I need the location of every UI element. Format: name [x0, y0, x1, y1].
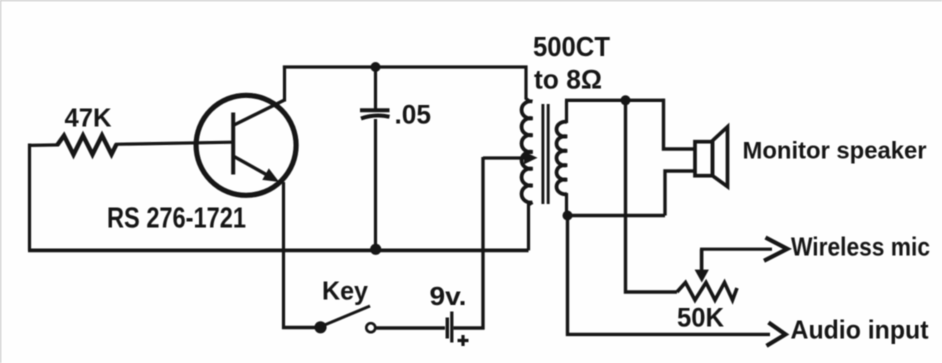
- secondary top lead: [565, 100, 568, 123]
- svg-text:9v.: 9v.: [430, 281, 467, 311]
- wire: secondary bottom horizontal: [567, 214, 666, 217]
- switch S1 Key: [282, 276, 375, 334]
- primary top lead: [526, 66, 530, 102]
- svg-text:Wireless mic: Wireless mic: [791, 232, 930, 262]
- wire: left vertical: [28, 144, 31, 251]
- battery B1 9v: [430, 281, 469, 346]
- secondary winding: [557, 122, 567, 194]
- svg-text:Key: Key: [322, 276, 369, 306]
- node: junction of capacitor with bottom rail: [370, 244, 381, 255]
- node: junction dot bottom of secondary: [563, 211, 573, 221]
- primary winding: [522, 101, 533, 202]
- capacitor C .05: [360, 67, 431, 250]
- wire: wiper to wireless mic arrow: [700, 232, 930, 262]
- wire: speaker top branch: [664, 99, 697, 149]
- secondary bottom lead: [565, 193, 568, 216]
- wire: speaker bottom branch: [665, 171, 694, 216]
- wire: base wire from left corner to transistor base: [30, 143, 60, 147]
- svg-text:RS 276-1721: RS 276-1721: [107, 203, 246, 235]
- svg-text:500CT: 500CT: [533, 31, 610, 62]
- wire: bottom rail: [28, 248, 529, 252]
- wire: center tap horizontal with arrow into coil: [483, 152, 538, 165]
- resistor R 47K: [58, 103, 117, 155]
- wire: secondary top to speaker loop: [565, 99, 665, 102]
- node: junction of capacitor with top rail: [371, 62, 381, 72]
- frame (decorative): [0, 0, 942, 1]
- wire: collector vertical: [283, 66, 286, 102]
- transistor Q1 RS 276-1721: [107, 95, 296, 234]
- svg-text:to 8Ω: to 8Ω: [534, 65, 602, 95]
- wire: switch to battery: [377, 326, 446, 329]
- node: junction dot on secondary top wire: [621, 95, 631, 105]
- wire: tap of speaker loop down to potentiometer: [626, 100, 678, 292]
- svg-text:50K: 50K: [677, 303, 724, 333]
- wire: battery to center-tap riser: [454, 326, 485, 329]
- wire: top rail: [283, 65, 528, 68]
- core lines: [541, 104, 544, 204]
- svg-text:47K: 47K: [65, 103, 112, 133]
- svg-text:.05: .05: [395, 100, 432, 130]
- svg-text:Audio input: Audio input: [791, 315, 929, 345]
- potentiometer R 50K: [677, 249, 737, 332]
- transformer T1 500CT to 8ohm: [522, 31, 610, 250]
- wire: center-tap riser vertical: [481, 157, 484, 330]
- wire: emitter vertical down to rail and key branch: [282, 182, 285, 329]
- wire: audio input line: [568, 216, 929, 346]
- primary bottom lead: [529, 202, 533, 250]
- svg-text:Monitor speaker: Monitor speaker: [743, 138, 927, 165]
- speaker LS1: [695, 127, 927, 187]
